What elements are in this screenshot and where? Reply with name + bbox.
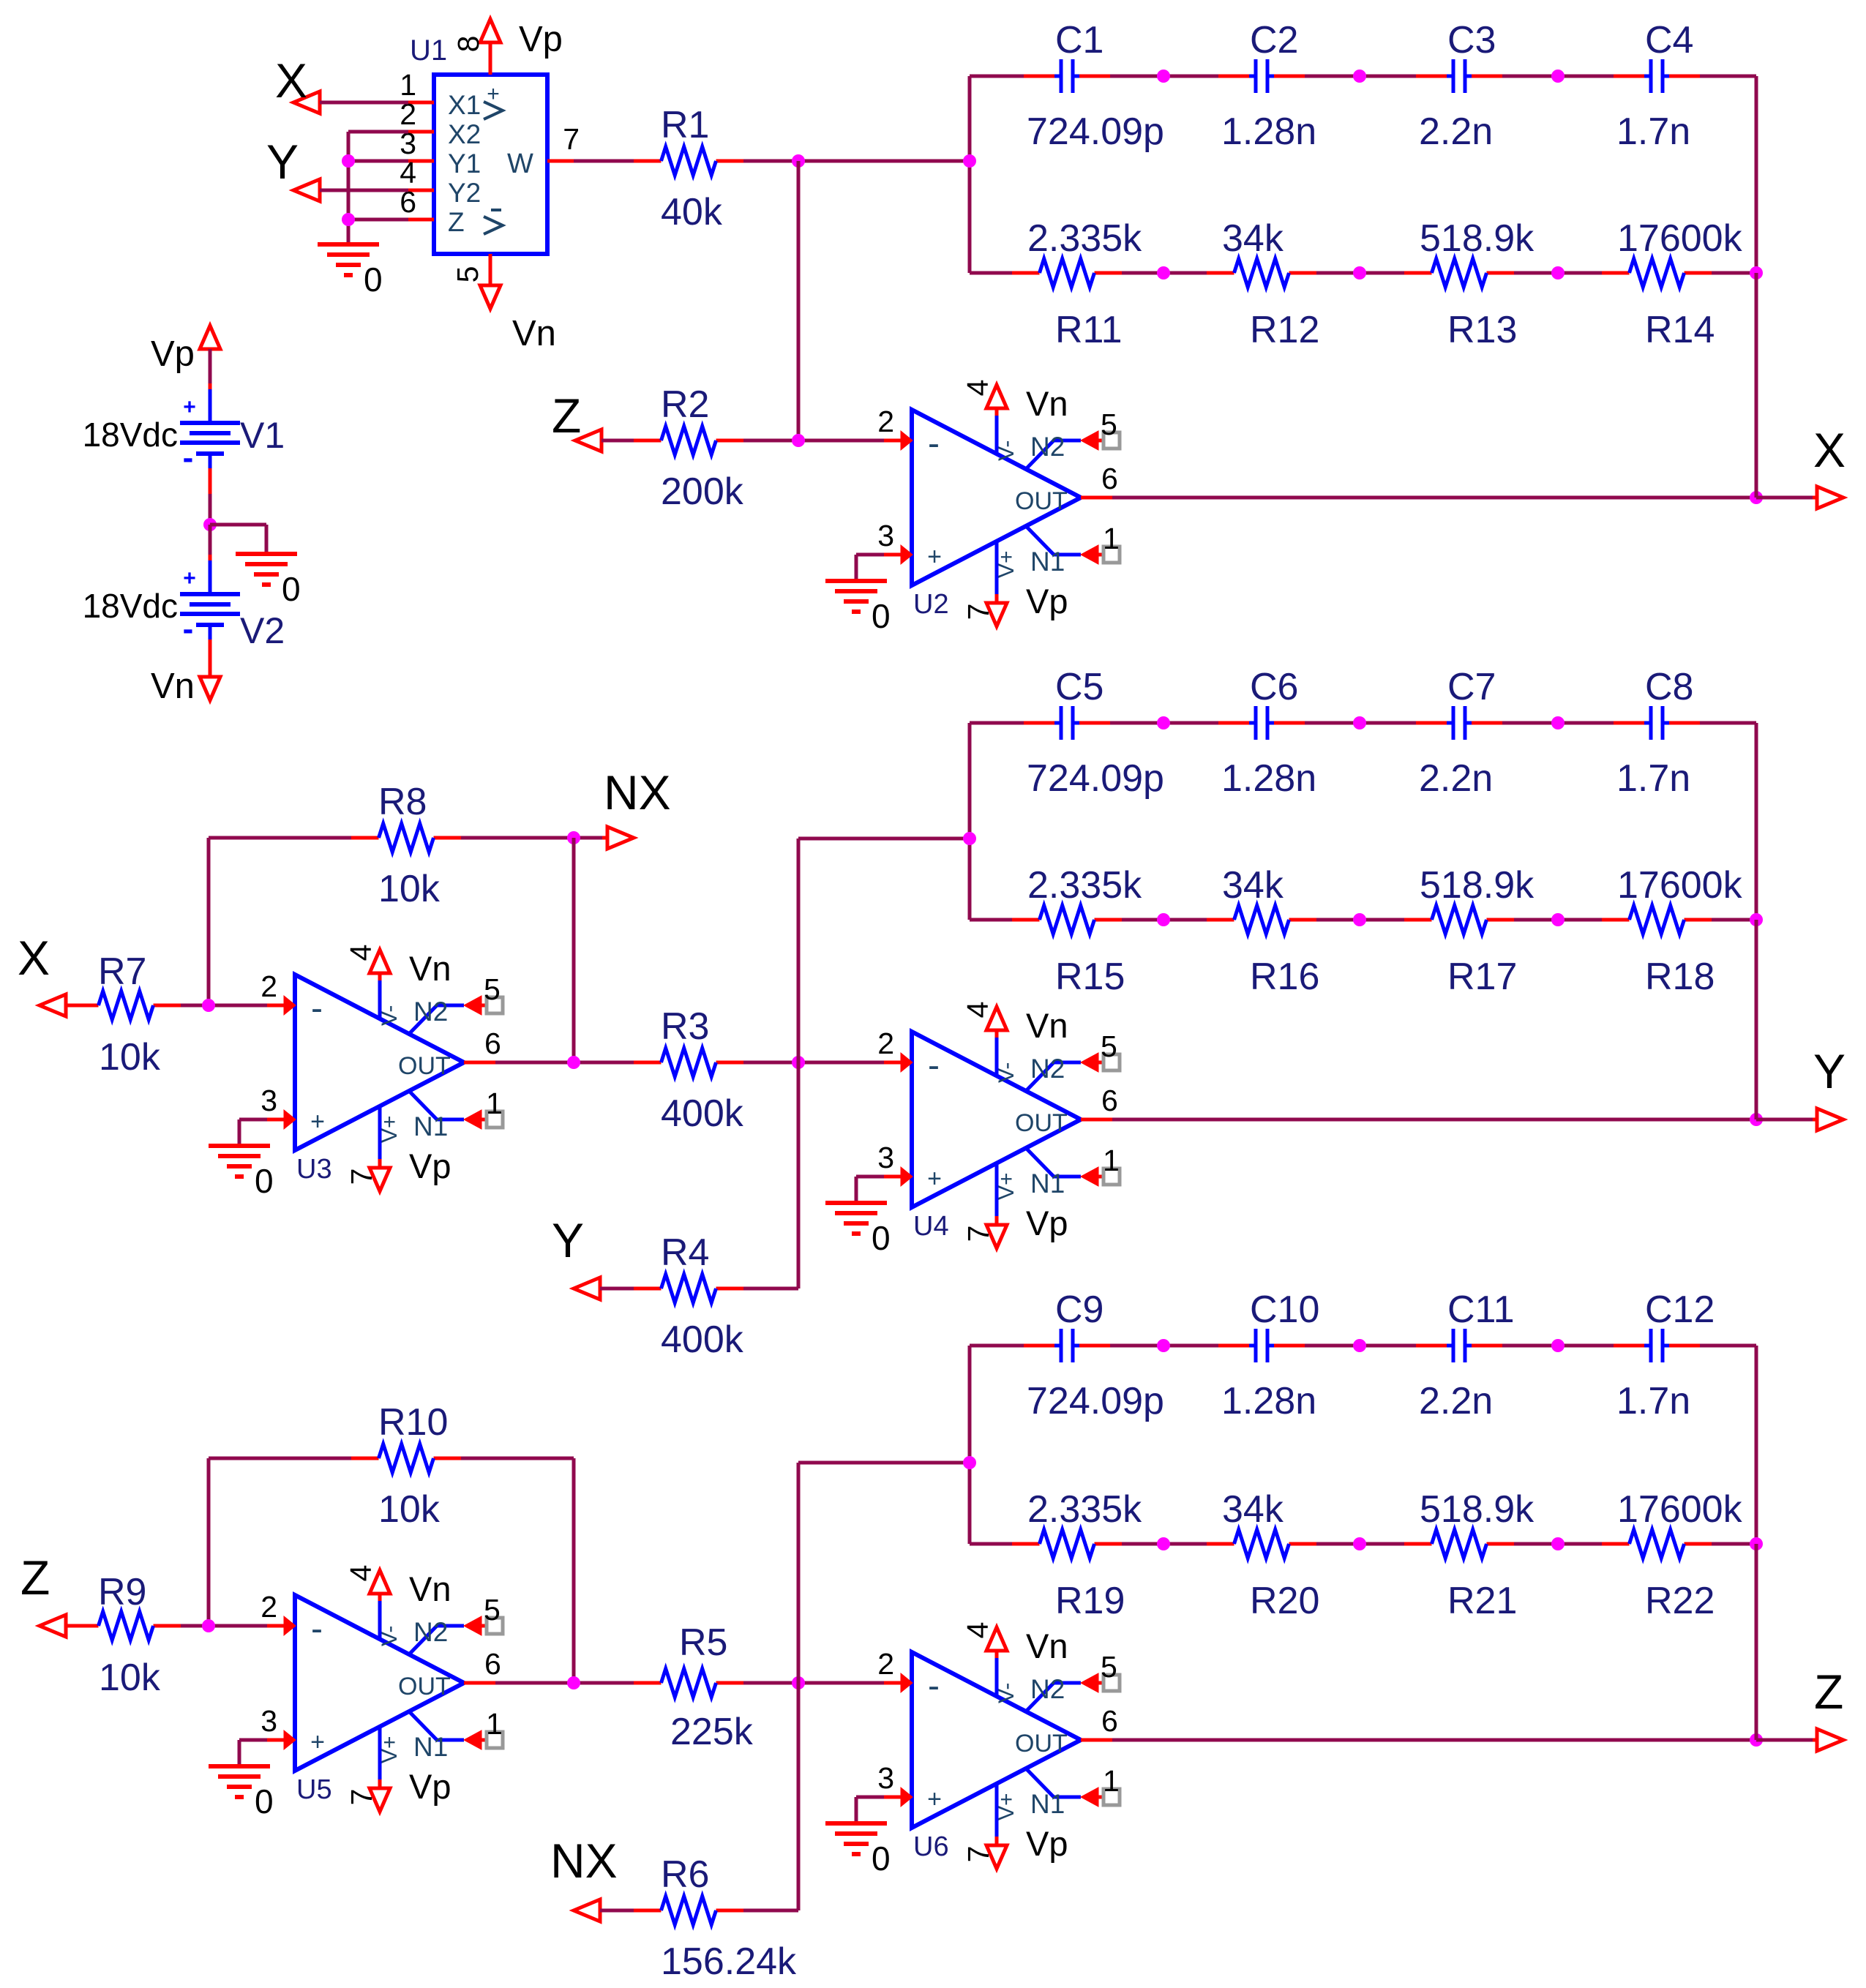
svg-text:6: 6 xyxy=(484,1647,501,1681)
resistor R22 17600k (stage Z) xyxy=(1602,1488,1743,1622)
wire NX node down to U3 out xyxy=(572,838,576,1062)
U5 pin 5 offset null N2 xyxy=(409,1626,464,1654)
svg-text:R11: R11 xyxy=(1055,309,1123,351)
svg-text:-: - xyxy=(928,1667,940,1706)
junction U3 out node xyxy=(567,1056,580,1069)
wire NX port to R6 xyxy=(600,1909,634,1913)
svg-text:0: 0 xyxy=(282,570,301,608)
wire ladder right rail xyxy=(1755,1346,1758,1544)
svg-text:18Vdc: 18Vdc xyxy=(83,416,178,454)
svg-text:C3: C3 xyxy=(1447,19,1496,61)
svg-text:R18: R18 xyxy=(1645,956,1715,998)
svg-text:Vp: Vp xyxy=(519,20,563,59)
svg-text:-: - xyxy=(183,611,194,647)
port NX (input to R6) xyxy=(550,1834,618,1921)
U6 pin 6 output xyxy=(1081,1738,1112,1742)
svg-text:7: 7 xyxy=(962,604,995,620)
svg-text:+: + xyxy=(310,1728,325,1756)
svg-text:2.335k: 2.335k xyxy=(1027,864,1142,907)
svg-text:Y1: Y1 xyxy=(448,149,481,179)
wire junction to ground xyxy=(210,525,266,554)
wire to Z output port xyxy=(1756,1738,1818,1742)
resistor R19 2.335k (stage Z) xyxy=(1012,1488,1142,1622)
svg-text:U6: U6 xyxy=(913,1831,949,1862)
wire ladder right rail xyxy=(1755,723,1758,920)
svg-text:17600k: 17600k xyxy=(1617,1488,1743,1531)
wire U4 out to Y port xyxy=(1112,1118,1756,1122)
resistor R13 518.9k (stage X) xyxy=(1404,217,1535,351)
ladder rails and wires (stage Z) xyxy=(970,1346,1756,1544)
svg-text:3: 3 xyxy=(877,519,894,552)
U6 pin 3 non-inverting input xyxy=(901,1788,913,1807)
ladder rails and wires (stage X) xyxy=(970,76,1756,273)
op-amp U3 xyxy=(261,945,503,1191)
junction ladder bottom rail x1858 (stage Y) xyxy=(1353,913,1366,926)
svg-text:8: 8 xyxy=(451,36,485,53)
junction R9/R10 node xyxy=(202,1619,215,1632)
ground at U2 pin3 xyxy=(825,555,891,635)
capacitor C8 1.7n (stage Y) xyxy=(1614,666,1700,800)
port NX (output) xyxy=(604,765,671,849)
capacitor C7 2.2n (stage Y) xyxy=(1416,666,1502,800)
wire U1 X2 ground branch xyxy=(348,132,408,244)
svg-text:2: 2 xyxy=(877,1027,894,1060)
svg-text:0: 0 xyxy=(364,260,383,299)
svg-text:N1: N1 xyxy=(413,1732,448,1762)
svg-text:U5: U5 xyxy=(296,1774,332,1805)
U6 pin 4 V- power pin xyxy=(995,1657,999,1697)
capacitor C1 724.09p (stage X) xyxy=(1024,19,1164,153)
junction Z output node xyxy=(1750,1733,1763,1747)
junction ladder bottom rail x2129 (stage Z) xyxy=(1551,1537,1565,1550)
svg-text:C1: C1 xyxy=(1055,19,1104,61)
U4 pin 6 output xyxy=(1081,1118,1112,1122)
wire R9 to U5 input xyxy=(181,1624,285,1628)
wire to Y output port xyxy=(1756,1118,1818,1122)
svg-text:200k: 200k xyxy=(661,470,744,513)
svg-text:V+: V+ xyxy=(378,1736,402,1763)
svg-text:5: 5 xyxy=(1101,1650,1117,1684)
wire U5 out to R5 xyxy=(495,1681,634,1685)
svg-text:518.9k: 518.9k xyxy=(1420,217,1535,260)
svg-text:7: 7 xyxy=(345,1789,378,1806)
svg-text:OUT: OUT xyxy=(1015,1109,1068,1137)
wire U6 node up to ladder3 xyxy=(798,1463,970,1683)
port Y (input to R4) xyxy=(552,1213,600,1299)
svg-text:724.09p: 724.09p xyxy=(1027,757,1164,800)
svg-text:10k: 10k xyxy=(99,1657,161,1699)
svg-text:-: - xyxy=(311,1610,323,1648)
svg-text:10k: 10k xyxy=(378,868,441,910)
svg-text:3: 3 xyxy=(261,1084,277,1117)
U1 pin 3 Y1 xyxy=(408,160,434,163)
svg-text:10k: 10k xyxy=(378,1488,441,1531)
svg-text:Vn: Vn xyxy=(1026,1627,1068,1665)
wire R1 node down to R2 node xyxy=(797,161,801,440)
svg-text:Z: Z xyxy=(448,207,465,237)
svg-text:Vp: Vp xyxy=(409,1147,451,1185)
svg-text:Vp: Vp xyxy=(1026,1824,1068,1863)
resistor R20 34k (stage Z) xyxy=(1207,1488,1319,1622)
resistor R1 40k xyxy=(634,104,743,233)
capacitor C2 1.28n (stage X) xyxy=(1218,19,1316,153)
ground at U4 pin3 xyxy=(825,1177,891,1257)
svg-text:OUT: OUT xyxy=(398,1673,451,1700)
junction Y output node xyxy=(1750,1113,1763,1126)
svg-text:X1: X1 xyxy=(448,90,481,120)
svg-text:724.09p: 724.09p xyxy=(1027,110,1164,153)
svg-text:6: 6 xyxy=(1101,462,1118,495)
svg-text:C12: C12 xyxy=(1645,1289,1715,1331)
svg-text:Y: Y xyxy=(552,1213,584,1267)
svg-text:X: X xyxy=(275,53,307,108)
wire ladder top rail xyxy=(970,721,1024,725)
wire R10 right leg xyxy=(461,1458,574,1683)
svg-text:7: 7 xyxy=(962,1846,995,1863)
junction ladder2 bottom right xyxy=(1750,913,1763,926)
svg-text:N1: N1 xyxy=(1030,1789,1065,1819)
svg-text:V+: V+ xyxy=(378,1115,402,1143)
wire ladder3 right rail down xyxy=(1755,1544,1758,1740)
ground at U6 pin3 xyxy=(825,1797,891,1878)
svg-text:0: 0 xyxy=(255,1162,274,1200)
wire V1 to junction xyxy=(209,468,212,525)
svg-text:34k: 34k xyxy=(1222,864,1284,907)
svg-text:V+: V+ xyxy=(994,1172,1019,1200)
U2 pin 1 offset null N1 xyxy=(1026,526,1081,555)
wire U4 node up to ladder2 xyxy=(798,839,970,1062)
U6 pin 2 inverting input xyxy=(901,1673,913,1692)
svg-text:R16: R16 xyxy=(1250,956,1319,998)
wire ladder bottom rail xyxy=(970,271,1012,275)
svg-text:U3: U3 xyxy=(296,1154,332,1185)
svg-text:V1: V1 xyxy=(240,415,285,456)
svg-text:NX: NX xyxy=(550,1834,618,1888)
U2 pin 6 output xyxy=(1081,496,1112,500)
svg-text:225k: 225k xyxy=(670,1711,754,1753)
wire R10 left leg xyxy=(209,1458,351,1626)
svg-text:Vn: Vn xyxy=(409,949,451,988)
svg-text:Vn: Vn xyxy=(409,1569,451,1608)
resistor R12 34k (stage X) xyxy=(1207,217,1319,351)
svg-text:2.2n: 2.2n xyxy=(1419,110,1493,153)
capacitor C5 724.09p (stage Y) xyxy=(1024,666,1164,800)
svg-text:156.24k: 156.24k xyxy=(661,1940,797,1983)
svg-text:400k: 400k xyxy=(661,1092,744,1135)
svg-text:V-: V- xyxy=(378,1626,402,1646)
svg-text:400k: 400k xyxy=(661,1319,744,1361)
svg-text:Vn: Vn xyxy=(1026,384,1068,423)
svg-text:0: 0 xyxy=(872,1839,891,1878)
svg-text:+: + xyxy=(183,566,196,590)
op-amp U4 xyxy=(877,1002,1120,1248)
svg-text:Vn: Vn xyxy=(1026,1006,1068,1045)
resistor R15 2.335k (stage Y) xyxy=(1012,864,1142,998)
wire ladder bottom rail xyxy=(970,1542,1012,1546)
port Z (input to R2) xyxy=(552,389,602,451)
U4 pin 1 offset null N1 xyxy=(1026,1148,1081,1177)
svg-text:6: 6 xyxy=(1101,1704,1118,1738)
svg-text:1: 1 xyxy=(486,1707,503,1741)
port X (input to U1 X1) xyxy=(275,53,320,113)
svg-text:V-: V- xyxy=(994,1683,1019,1703)
resistor R16 34k (stage Y) xyxy=(1207,864,1319,998)
wire R6 up to U6 node xyxy=(743,1683,798,1910)
wire X port to U1 pin1 xyxy=(320,101,408,105)
svg-text:R3: R3 xyxy=(661,1005,709,1048)
wire U3 out to R3 xyxy=(495,1061,634,1065)
U5 pin 7 V+ power pin xyxy=(378,1726,382,1779)
svg-text:C2: C2 xyxy=(1250,19,1298,61)
svg-text:5: 5 xyxy=(1101,408,1117,441)
svg-text:6: 6 xyxy=(1101,1084,1118,1117)
U6 pin 1 offset null N1 xyxy=(1026,1768,1081,1797)
svg-text:U1: U1 xyxy=(410,34,447,67)
wire U6 out to Z port xyxy=(1112,1738,1756,1742)
svg-text:2: 2 xyxy=(261,969,277,1003)
svg-text:5: 5 xyxy=(484,972,501,1006)
svg-text:N2: N2 xyxy=(1030,1054,1065,1084)
U4 pin 3 non-inverting input xyxy=(901,1167,913,1186)
svg-text:3: 3 xyxy=(877,1141,894,1174)
U5 pin 1 offset null N1 xyxy=(409,1711,464,1740)
wire U1 Y1 ground branch xyxy=(348,160,408,163)
svg-text:R5: R5 xyxy=(679,1621,727,1664)
U1 pin 4 Y2 xyxy=(408,189,434,192)
U2 pin 7 V+ power pin xyxy=(995,541,999,594)
U6 pin 7 V+ power pin xyxy=(995,1783,999,1837)
capacitor C6 1.28n (stage Y) xyxy=(1218,666,1316,800)
svg-text:X: X xyxy=(1813,423,1846,477)
svg-text:R9: R9 xyxy=(98,1571,146,1613)
power flag Vn (supply) xyxy=(151,667,220,706)
svg-text:1.7n: 1.7n xyxy=(1616,110,1690,153)
wire Z port stub xyxy=(66,1624,72,1628)
svg-text:4: 4 xyxy=(961,380,994,397)
port Z (input to R9) xyxy=(20,1550,66,1637)
svg-text:C10: C10 xyxy=(1250,1289,1319,1331)
svg-text:0: 0 xyxy=(255,1782,274,1820)
U6 pin 5 offset null N2 xyxy=(1026,1683,1081,1711)
svg-text:R10: R10 xyxy=(378,1401,448,1444)
svg-text:1: 1 xyxy=(1103,1144,1120,1177)
wire Z port to R2 xyxy=(602,439,634,443)
junction ladder1 entry xyxy=(963,154,976,168)
wire R7 to U3 input xyxy=(181,1004,285,1008)
svg-text:5: 5 xyxy=(451,266,484,283)
svg-text:R22: R22 xyxy=(1645,1580,1715,1622)
svg-text:C9: C9 xyxy=(1055,1289,1104,1331)
op-amp U2 xyxy=(877,380,1120,626)
resistor R11 2.335k (stage X) xyxy=(1012,217,1142,351)
svg-text:4: 4 xyxy=(344,945,378,961)
wire ladder left rail xyxy=(968,1346,972,1544)
U3 pin 6 output xyxy=(464,1061,495,1065)
svg-text:Y: Y xyxy=(266,135,299,189)
resistor R3 400k xyxy=(634,1005,744,1135)
svg-text:R2: R2 xyxy=(661,383,709,426)
svg-text:Z: Z xyxy=(1814,1665,1843,1719)
svg-text:Z: Z xyxy=(552,389,581,443)
junction ladder bottom rail x2129 (stage X) xyxy=(1551,266,1565,280)
capacitor C3 2.2n (stage X) xyxy=(1416,19,1502,153)
svg-text:1: 1 xyxy=(1103,1764,1120,1798)
wire ladder2 right rail down xyxy=(1755,920,1758,1119)
wire ladder left rail xyxy=(968,723,972,920)
resistor R18 17600k (stage Y) xyxy=(1602,864,1743,998)
svg-text:C11: C11 xyxy=(1447,1289,1515,1331)
svg-text:4: 4 xyxy=(344,1565,378,1582)
port X (input to R7) xyxy=(18,931,66,1016)
svg-text:Vp: Vp xyxy=(1026,582,1068,620)
junction ladder3 entry xyxy=(963,1456,976,1469)
svg-text:-: - xyxy=(311,989,323,1028)
svg-text:R17: R17 xyxy=(1447,956,1517,998)
svg-text:X2: X2 xyxy=(448,119,481,149)
battery V1 18Vdc xyxy=(83,389,285,476)
wire ladder left rail xyxy=(968,76,972,273)
svg-text:OUT: OUT xyxy=(1015,1730,1068,1758)
svg-text:Vp: Vp xyxy=(151,334,195,374)
svg-text:R13: R13 xyxy=(1447,309,1517,351)
U3 pin 7 V+ power pin xyxy=(378,1106,382,1159)
svg-text:Y: Y xyxy=(1813,1044,1846,1098)
U2 pin 4 V- power pin xyxy=(995,414,999,454)
svg-text:N2: N2 xyxy=(1030,432,1065,462)
junction ladder1 bottom right xyxy=(1750,266,1763,280)
wire U2 out to X port xyxy=(1112,496,1756,500)
U2 pin 3 non-inverting input xyxy=(901,545,913,564)
port Z (output) xyxy=(1814,1665,1843,1751)
svg-text:V-: V- xyxy=(994,1062,1019,1083)
resistor R4 400k xyxy=(634,1231,744,1361)
wire R3 to U4 input xyxy=(743,1061,902,1065)
junction U1 Y1 node xyxy=(342,154,355,168)
svg-text:N2: N2 xyxy=(413,997,448,1027)
ground at supply midpoint xyxy=(236,554,301,608)
svg-text:1.7n: 1.7n xyxy=(1616,757,1690,800)
junction ladder top rail x2129 (stage Z) xyxy=(1551,1339,1565,1352)
junction R1/R2 node xyxy=(792,154,805,168)
svg-text:2.2n: 2.2n xyxy=(1419,1380,1493,1422)
U2 pin 5 offset null N2 xyxy=(1026,440,1081,469)
resistor R21 518.9k (stage Z) xyxy=(1404,1488,1535,1622)
svg-text:C4: C4 xyxy=(1645,19,1693,61)
power flag Vp (supply) xyxy=(151,326,220,374)
svg-text:+: + xyxy=(927,1785,942,1813)
resistor R2 200k xyxy=(634,383,744,513)
U5 pin 6 output xyxy=(464,1681,495,1685)
svg-text:1.28n: 1.28n xyxy=(1221,757,1316,800)
svg-text:Vn: Vn xyxy=(151,667,195,706)
svg-text:NX: NX xyxy=(604,765,671,819)
svg-text:X: X xyxy=(18,931,50,985)
resistor R6 156.24k xyxy=(634,1853,797,1983)
svg-text:0: 0 xyxy=(872,597,891,635)
svg-text:4: 4 xyxy=(961,1002,994,1019)
svg-text:+: + xyxy=(183,395,196,419)
svg-text:OUT: OUT xyxy=(1015,487,1068,515)
U4 pin 4 V- power pin xyxy=(995,1036,999,1076)
U3 pin 2 inverting input xyxy=(284,996,296,1015)
junction ladder top rail x1858 (stage Z) xyxy=(1353,1339,1366,1352)
U1 pin 5 Vn power pin xyxy=(489,254,492,285)
svg-text:7: 7 xyxy=(563,122,580,156)
svg-text:4: 4 xyxy=(961,1622,994,1639)
wire X port stub xyxy=(66,1004,72,1008)
svg-text:R8: R8 xyxy=(378,781,427,823)
svg-text:Vp: Vp xyxy=(1026,1204,1068,1242)
U2 pin 2 inverting input xyxy=(901,431,913,450)
wire R1 to ladder1 xyxy=(743,160,970,163)
svg-text:518.9k: 518.9k xyxy=(1420,1488,1535,1531)
junction ladder top rail x1590 (stage X) xyxy=(1157,70,1170,83)
svg-text:N1: N1 xyxy=(1030,1169,1065,1199)
wire junction to V2 xyxy=(209,525,212,565)
wire R5 to U6 input xyxy=(743,1681,902,1685)
svg-text:7: 7 xyxy=(345,1169,378,1185)
svg-text:1: 1 xyxy=(486,1087,503,1120)
port X (output) xyxy=(1813,423,1846,509)
wire ladder right rail xyxy=(1755,76,1758,273)
svg-text:2: 2 xyxy=(261,1590,277,1624)
svg-text:5: 5 xyxy=(1101,1029,1117,1063)
junction R5/U6- node xyxy=(792,1676,805,1689)
junction ladder top rail x1590 (stage Z) xyxy=(1157,1339,1170,1352)
U3 pin 3 non-inverting input xyxy=(284,1110,296,1129)
svg-text:6: 6 xyxy=(484,1027,501,1060)
svg-text:N1: N1 xyxy=(1030,547,1065,577)
wire R8 to NX port xyxy=(461,836,608,840)
wire R2 to U2 input xyxy=(743,439,902,443)
svg-text:7: 7 xyxy=(962,1226,995,1242)
wire ladder bottom rail xyxy=(970,918,1012,922)
svg-text:R12: R12 xyxy=(1250,309,1319,351)
svg-text:C8: C8 xyxy=(1645,666,1693,708)
svg-text:1: 1 xyxy=(1103,522,1120,555)
resistor R7 10k xyxy=(71,950,181,1079)
svg-text:R21: R21 xyxy=(1447,1580,1517,1622)
svg-text:N2: N2 xyxy=(413,1617,448,1647)
svg-text:R7: R7 xyxy=(98,950,146,993)
capacitor C4 1.7n (stage X) xyxy=(1614,19,1700,153)
junction U5 out node xyxy=(567,1676,580,1689)
junction ladder bottom rail x2129 (stage Y) xyxy=(1551,913,1565,926)
junction ladder3 bottom right xyxy=(1750,1537,1763,1550)
svg-text:17600k: 17600k xyxy=(1617,217,1743,260)
junction ladder bottom rail x1590 (stage Y) xyxy=(1157,913,1170,926)
svg-text:V-: V- xyxy=(378,1005,402,1026)
svg-text:N2: N2 xyxy=(1030,1674,1065,1704)
wire U1 Z ground branch xyxy=(348,218,408,222)
U4 pin 2 inverting input xyxy=(901,1053,913,1072)
U1 pin 8 Vp power pin xyxy=(489,42,492,75)
U5 pin 3 non-inverting input xyxy=(284,1730,296,1749)
svg-text:OUT: OUT xyxy=(398,1052,451,1080)
junction ladder top rail x1858 (stage Y) xyxy=(1353,716,1366,729)
multiplier U1 (AD633) xyxy=(400,19,580,353)
svg-text:2: 2 xyxy=(877,1647,894,1681)
junction ladder top rail x1590 (stage Y) xyxy=(1157,716,1170,729)
wire R8 left leg xyxy=(209,838,351,1005)
ladder rails and wires (stage Y) xyxy=(970,723,1756,920)
resistor R14 17600k (stage X) xyxy=(1602,217,1743,351)
svg-text:2.335k: 2.335k xyxy=(1027,217,1142,260)
junction ladder top rail x1858 (stage X) xyxy=(1353,70,1366,83)
svg-text:2.335k: 2.335k xyxy=(1027,1488,1142,1531)
svg-text:34k: 34k xyxy=(1222,1488,1284,1531)
resistor R9 10k xyxy=(71,1571,181,1699)
